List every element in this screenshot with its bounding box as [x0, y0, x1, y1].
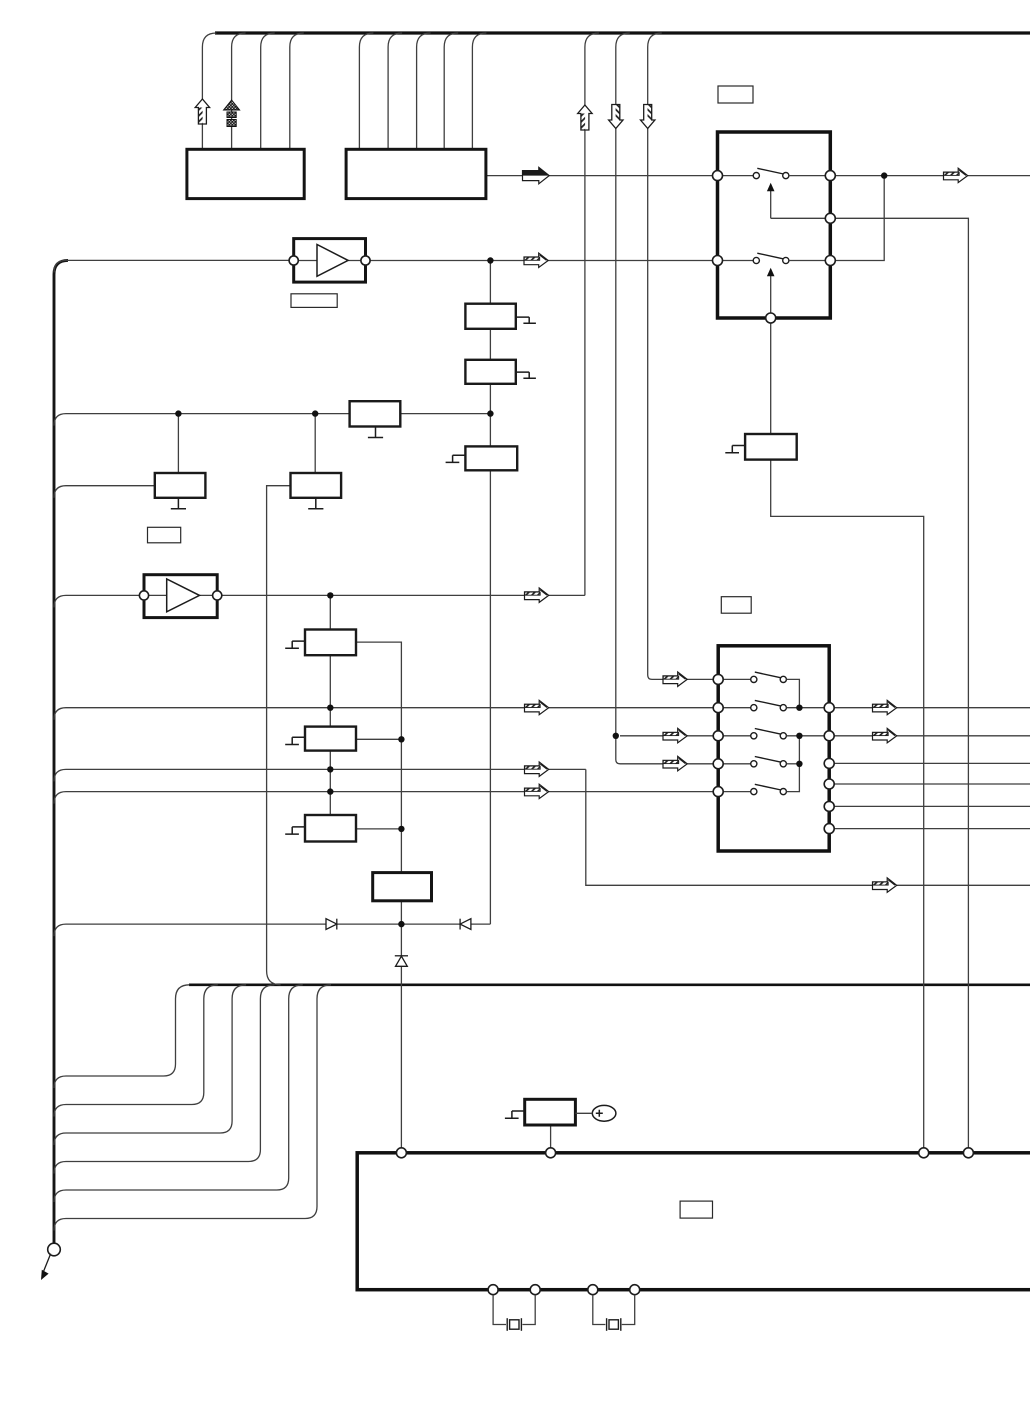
wire bottom-bus branch 4 to ground bus: [54, 985, 274, 1174]
U3 row2 input pin: [713, 256, 723, 266]
wire bus drop to U2 pin 3: [417, 33, 431, 149]
U4 output pin 4: [824, 779, 834, 789]
U3 control pin mid: [825, 213, 835, 223]
buffer A2 triangle: [167, 579, 200, 612]
diode D2: [460, 919, 471, 930]
wire U4 output 1 to right edge: [834, 707, 1030, 709]
signal arrow U4 row4 in: [663, 756, 687, 770]
wire B8 to zener to main IC: [400, 901, 402, 1148]
junction dot U4 a: [796, 705, 802, 711]
U5 top pin c: [919, 1148, 929, 1158]
wire L6 horizontal: [54, 769, 586, 781]
wire B7 down right down to main IC: [771, 460, 924, 1148]
wire B6 output: [356, 828, 401, 830]
U4 row2 input pin: [713, 703, 723, 713]
battery indicator BT1: [592, 1105, 616, 1121]
U5 top pin b: [546, 1148, 556, 1158]
buffer A2 inner wires: [144, 594, 217, 596]
U3 switch 2: [718, 253, 831, 263]
wire U4 output 2 to right edge: [834, 735, 1030, 737]
analog switch U4 box: [718, 646, 829, 851]
wire U4 row4 input from drop x616: [616, 736, 713, 764]
wire U4 output 4 to right edge: [834, 783, 1030, 785]
falling-edge symbol B3a: [516, 317, 536, 323]
wire L2 after B1 to node: [400, 413, 490, 415]
zener D3: [395, 956, 408, 967]
U4 output pin 1: [824, 703, 834, 713]
junction dot U4 b: [796, 733, 802, 739]
signal arrow up (checkered) on U1 wire: [224, 100, 240, 127]
U5 top pin a: [396, 1148, 406, 1158]
wire diode line middle: [337, 923, 459, 925]
bus (bottom thick): [189, 983, 1030, 986]
signal arrow U4 out row2: [873, 700, 897, 714]
wire line L2 to B1 row: [54, 414, 350, 426]
block B3a: [465, 304, 515, 329]
crystal X2 wiring: [593, 1295, 635, 1325]
rising-edge symbol B7: [725, 446, 745, 453]
wire U3 output line to right edge: [835, 175, 1030, 177]
wire bottom-bus branch 5 to ground bus: [54, 985, 303, 1202]
signal arrow solid U2 to U3: [523, 167, 550, 183]
wire bus drop to U2 pin 5: [472, 33, 486, 149]
junction dot U3 output: [881, 172, 887, 178]
block B9: [525, 1099, 576, 1125]
buffer A1 input pin: [289, 256, 298, 265]
ground under B2b: [308, 498, 323, 509]
junction node L2 end: [487, 410, 493, 416]
U4 row1 input pin: [713, 674, 723, 684]
crystal X2: [607, 1318, 621, 1331]
block B3c: [465, 446, 517, 470]
signal arrow L6: [525, 762, 549, 776]
rising-edge symbol B5: [285, 737, 305, 744]
junction node diode line: [398, 921, 404, 927]
wire A2 input from ground bus: [54, 595, 139, 607]
U4 row2 to output: [786, 707, 829, 709]
wire bus drop to U2 pin 4: [444, 33, 458, 149]
junction node A2 line/x330: [327, 592, 333, 598]
signal arrow down on drop x616: [609, 105, 623, 129]
wire bus drop to U2 pin 1: [359, 33, 373, 149]
wire bus drop x648 to U4 row1: [648, 33, 714, 679]
signal arrow U4 row3 in: [663, 728, 687, 742]
buffer A2 input pin: [139, 591, 148, 600]
U4 switch row5: [718, 784, 786, 794]
main IC U5 box: [357, 1153, 1030, 1290]
U3 bottom control pin: [766, 313, 776, 323]
wire U3 bottom to B7: [770, 323, 772, 434]
wire B2b top feed: [314, 414, 316, 473]
wire node x490 vertical chain: [489, 261, 491, 925]
wire A2 output line: [222, 594, 585, 596]
wire U2 output to U3: [486, 175, 713, 177]
diode D1: [326, 919, 337, 930]
wire bottom-bus branch 6 to ground bus: [54, 985, 331, 1231]
block B4: [305, 630, 356, 656]
wire bus drop x616 to U4: [616, 33, 630, 736]
U4 output pin 5: [824, 801, 834, 811]
U3 row1 input pin: [713, 171, 723, 181]
signal arrow U3 out: [944, 168, 968, 182]
U4 row3-row4 tie: [798, 736, 800, 764]
wire U4 output 5 to right edge: [834, 805, 1030, 807]
block B5: [305, 727, 356, 751]
wire diode line right segment: [471, 923, 490, 925]
signal arrow up on riser x585: [578, 105, 592, 130]
block B8: [373, 873, 432, 901]
buffer A1 output pin: [361, 256, 370, 265]
junction node L2/B2b: [312, 410, 318, 416]
block B1: [350, 401, 401, 426]
U4 row3 input pin: [713, 731, 723, 741]
analog switch U3 box: [718, 132, 831, 318]
ground under B2a: [171, 498, 186, 509]
wire bottom-bus branch 3 to ground bus: [54, 985, 246, 1145]
crystal X1: [507, 1318, 521, 1331]
U5 bottom pin 4: [630, 1285, 640, 1295]
junction node L6/x330: [327, 766, 333, 772]
IC U2: [346, 149, 486, 198]
junction dot U4 c: [796, 761, 802, 767]
U4 output pin 6: [824, 824, 834, 834]
junction node row5/x330: [327, 788, 333, 794]
wire A1 input from ground bus: [54, 260, 289, 272]
junction node drop x616/row3: [613, 733, 619, 739]
buffer A1 box: [294, 239, 366, 283]
falling-edge symbol B3b: [516, 372, 536, 378]
U5 bottom pin 2: [530, 1285, 540, 1295]
block B7: [745, 434, 797, 460]
junction node B5 out: [398, 736, 404, 742]
wire L5 to U4 row2: [54, 708, 713, 720]
junction node A1 line/x490: [487, 257, 493, 263]
U5 top pin d: [963, 1148, 973, 1158]
crystal X1 wiring: [493, 1295, 535, 1325]
signal arrow L6 out: [873, 878, 897, 892]
U4 row4 stub: [786, 763, 799, 765]
label box in U5: [680, 1201, 712, 1218]
power bus (top): [215, 31, 1030, 34]
wire B2a top feed: [177, 414, 179, 473]
wire bus drop to U1 pin 1: [202, 33, 216, 149]
wire row5 line to U4: [54, 792, 713, 804]
rising-edge symbol B6: [285, 827, 305, 834]
block B3b: [465, 360, 515, 384]
rising-edge symbol B4: [285, 641, 305, 648]
wire bottom-bus branch 1 to ground bus: [54, 985, 190, 1088]
block B2a: [155, 473, 206, 498]
plus sign in BT1: [596, 1110, 603, 1117]
buffer A2 output pin: [213, 591, 222, 600]
wire bus drop to U1 pin 2: [232, 33, 246, 149]
U3 row2 output pin: [825, 256, 835, 266]
label box under A1: [291, 294, 337, 308]
junction node B6 out: [398, 826, 404, 832]
wire bus riser from A2 output: [585, 33, 599, 595]
connector J1 terminal circle: [48, 1243, 61, 1256]
wire L6 vertical and out to right: [586, 769, 1030, 885]
U4 switch row1: [718, 672, 786, 682]
junction node L5/x330: [327, 705, 333, 711]
U3 switch 1: [718, 168, 831, 178]
U4 output pin 3: [824, 758, 834, 768]
block B2b: [291, 473, 342, 498]
U3 switch 1 actuator: [767, 183, 830, 219]
wire A1 output to U3 row2: [370, 260, 712, 262]
U4 row5 bend to row4: [786, 764, 799, 792]
U5 bottom pin 3: [588, 1285, 598, 1295]
wire bottom-bus branch 2 to ground bus: [54, 985, 218, 1117]
signal arrow U4 row1 in: [663, 672, 687, 686]
block B6: [305, 815, 356, 842]
buffer A2 box: [144, 575, 217, 618]
wire B9 bottom to main IC: [550, 1125, 552, 1148]
wire node x330 vertical chain: [329, 595, 331, 815]
signal arrow down on drop x648: [641, 105, 655, 129]
wire B5 output: [356, 738, 401, 740]
buffer A1 inner wires: [294, 260, 366, 262]
wire diode line from ground bus: [54, 924, 326, 936]
wire B4 output to x401: [356, 642, 401, 873]
rising-edge symbol B9: [505, 1111, 525, 1118]
U4 row5 input pin: [713, 787, 723, 797]
IC U1: [187, 149, 304, 198]
wire U3 mid output down to main IC: [835, 218, 968, 1148]
wire bus drop to U1 pin 3: [261, 33, 275, 149]
label box under B2a: [148, 527, 181, 543]
U4 row3 to output: [786, 735, 829, 737]
ground bus (left vertical): [54, 260, 68, 1243]
U4 switch row2: [718, 700, 786, 710]
signal arrow A1 line: [524, 253, 548, 267]
signal arrow U4 out row3: [873, 728, 897, 742]
buffer A1 triangle: [317, 245, 348, 277]
signal arrow L5: [525, 700, 549, 714]
wire L3 to B3 input: [54, 486, 155, 498]
ground under B1: [368, 427, 383, 438]
U4 switch row3: [718, 729, 786, 739]
U4 row1 bend to row2: [786, 679, 799, 707]
label box above U3: [718, 86, 753, 103]
wire U3 row2 output merge: [835, 176, 884, 261]
wire bus drop to U1 pin 4: [290, 33, 304, 149]
wire B9 to BT1: [575, 1112, 592, 1114]
signal arrow up (hatched) on U1 wire: [195, 99, 209, 124]
label box above U4: [721, 597, 751, 614]
U5 bottom pin 1: [488, 1285, 498, 1295]
U3 switch 2 actuator: [767, 268, 775, 313]
wire U4 output 3 to right edge: [834, 762, 1030, 764]
wire U4 row3 input from node: [620, 735, 713, 737]
U4 row4 input pin: [713, 759, 723, 769]
junction node L2/B2a: [175, 410, 181, 416]
wire U4 output 6 to right edge: [834, 828, 1030, 830]
U4 output pin 2: [824, 731, 834, 741]
connector J1 arrow: [41, 1254, 51, 1280]
wire bus drop to U2 pin 2: [388, 33, 402, 149]
rising-edge symbol B3c: [446, 455, 466, 462]
signal arrow row5: [525, 784, 549, 798]
signal arrow A2 line: [525, 588, 549, 602]
U3 row1 output pin: [825, 171, 835, 181]
U4 switch row4: [718, 757, 786, 767]
wire B2b left to bottom bus: [267, 486, 291, 985]
